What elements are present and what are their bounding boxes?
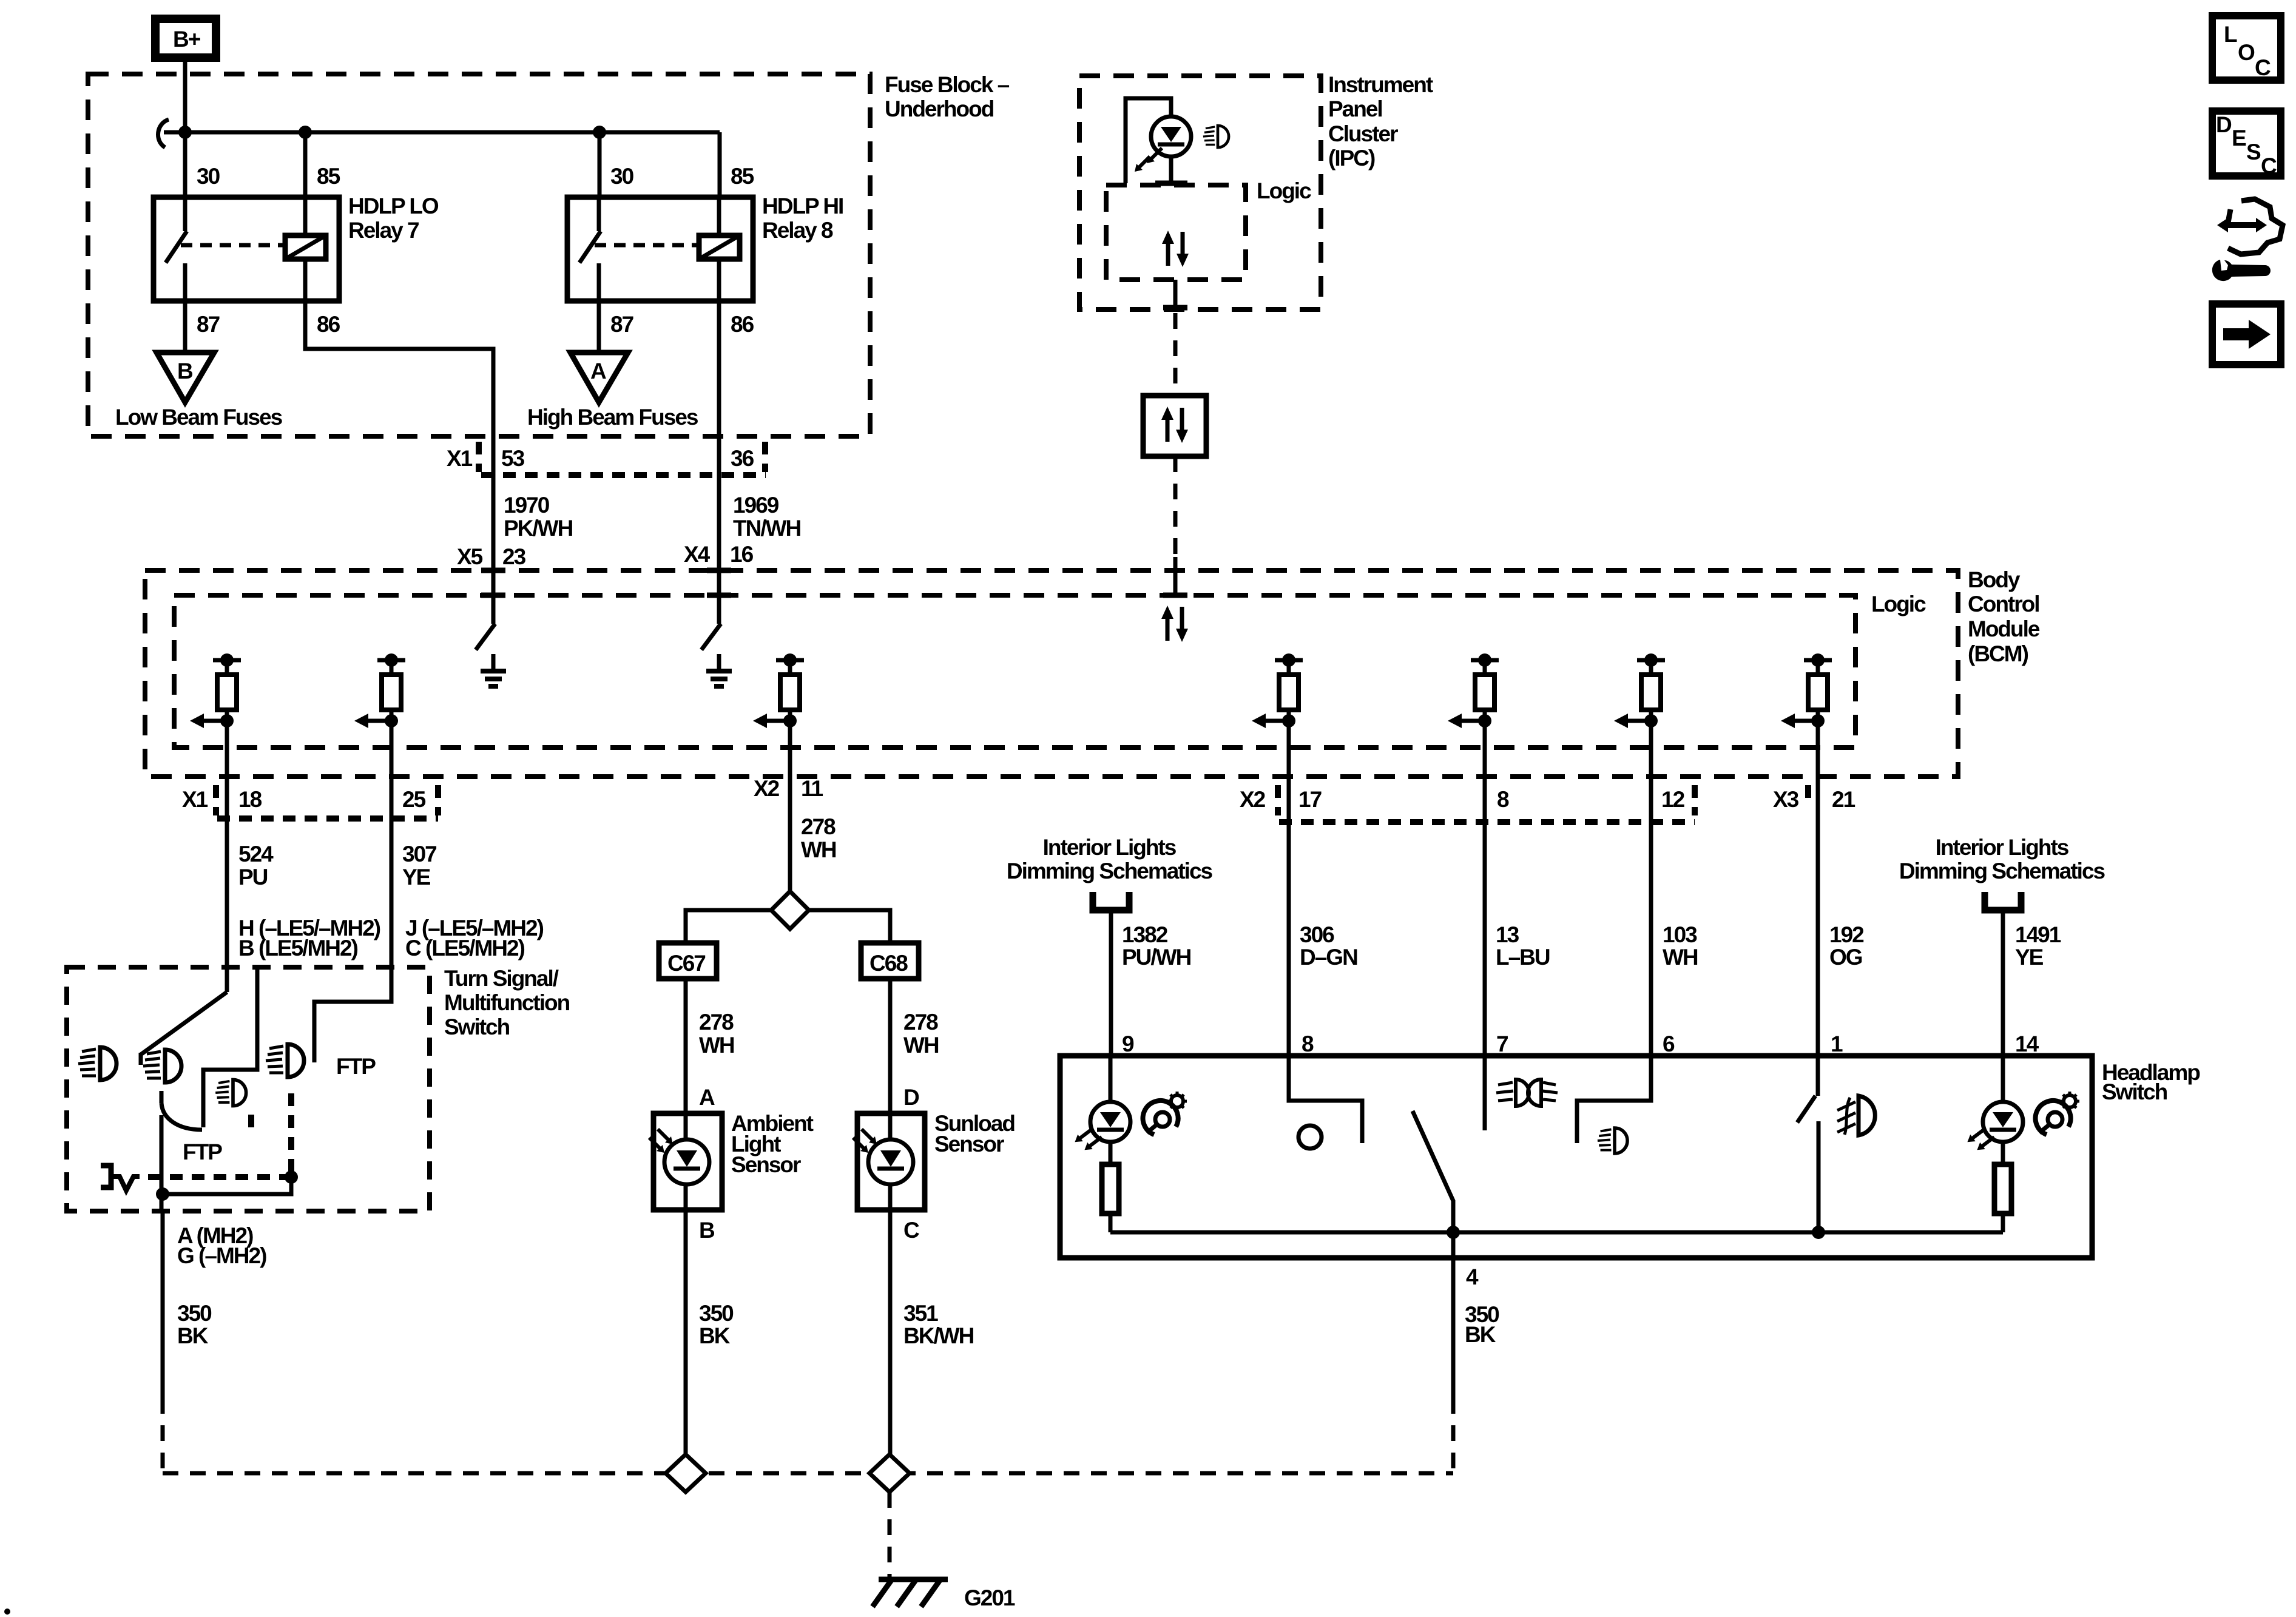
svg-text:C (LE5/MH2): C (LE5/MH2) — [405, 936, 525, 960]
svg-text:(BCM): (BCM) — [1968, 641, 2028, 666]
svg-text:30: 30 — [197, 164, 220, 189]
svg-text:WH: WH — [699, 1033, 734, 1058]
svg-text:D: D — [903, 1085, 919, 1110]
svg-text:86: 86 — [317, 312, 340, 337]
svg-text:524: 524 — [238, 842, 274, 866]
svg-text:Multifunction: Multifunction — [444, 990, 570, 1015]
svg-text:PU: PU — [238, 865, 268, 890]
svg-text:YE: YE — [402, 865, 431, 890]
svg-text:HDLP LO: HDLP LO — [348, 194, 439, 218]
svg-text:G (–MH2): G (–MH2) — [177, 1243, 266, 1268]
svg-text:6: 6 — [1663, 1031, 1675, 1056]
svg-text:A: A — [590, 359, 606, 383]
svg-text:C: C — [903, 1218, 919, 1243]
svg-text:Panel: Panel — [1328, 96, 1382, 121]
svg-text:D–GN: D–GN — [1300, 945, 1357, 970]
svg-text:278: 278 — [801, 814, 836, 839]
svg-text:7: 7 — [1496, 1031, 1508, 1056]
svg-text:BK: BK — [699, 1323, 731, 1348]
svg-text:16: 16 — [730, 542, 754, 567]
svg-text:307: 307 — [402, 842, 436, 866]
svg-text:S: S — [2246, 140, 2261, 164]
svg-text:C67: C67 — [667, 951, 705, 976]
svg-text:WH: WH — [1663, 945, 1698, 970]
svg-text:Interior Lights: Interior Lights — [1043, 835, 1177, 860]
svg-text:14: 14 — [2015, 1031, 2039, 1056]
svg-text:25: 25 — [402, 787, 426, 812]
svg-text:1382: 1382 — [1122, 922, 1168, 947]
svg-text:8: 8 — [1497, 787, 1509, 812]
svg-text:278: 278 — [903, 1010, 938, 1035]
svg-text:1969: 1969 — [733, 493, 779, 518]
svg-text:BK: BK — [1465, 1322, 1496, 1347]
svg-text:FTP: FTP — [336, 1054, 376, 1079]
svg-text:23: 23 — [502, 544, 526, 569]
svg-text:X4: X4 — [684, 542, 711, 567]
svg-text:C68: C68 — [869, 951, 908, 976]
svg-text:BK/WH: BK/WH — [903, 1323, 974, 1348]
svg-text:306: 306 — [1300, 922, 1334, 947]
svg-text:36: 36 — [731, 446, 754, 471]
svg-text:Logic: Logic — [1871, 592, 1926, 616]
svg-text:PU/WH: PU/WH — [1122, 945, 1191, 970]
svg-text:O: O — [2238, 40, 2255, 65]
svg-text:Cluster: Cluster — [1328, 121, 1398, 146]
svg-text:18: 18 — [238, 787, 262, 812]
svg-text:Switch: Switch — [444, 1014, 510, 1039]
svg-text:351: 351 — [903, 1301, 938, 1326]
svg-text:FTP: FTP — [183, 1139, 222, 1164]
svg-text:L: L — [2224, 22, 2237, 47]
svg-text:B: B — [699, 1218, 715, 1243]
svg-text:192: 192 — [1829, 922, 1864, 947]
svg-text:HDLP HI: HDLP HI — [762, 194, 843, 218]
svg-text:BK: BK — [177, 1323, 209, 1348]
svg-text:85: 85 — [731, 164, 754, 189]
svg-text:Body: Body — [1968, 567, 2021, 592]
svg-text:D: D — [2216, 112, 2232, 137]
svg-text:X5: X5 — [457, 544, 483, 569]
svg-text:86: 86 — [731, 312, 754, 337]
svg-text:Switch: Switch — [2102, 1079, 2167, 1104]
svg-text:Sensor: Sensor — [934, 1132, 1004, 1156]
svg-text:TN/WH: TN/WH — [733, 516, 801, 541]
svg-text:X2: X2 — [754, 776, 780, 801]
svg-text:Turn Signal/: Turn Signal/ — [444, 966, 559, 991]
svg-text:Fuse Block –: Fuse Block – — [885, 72, 1010, 97]
svg-text:21: 21 — [1832, 787, 1855, 812]
svg-text:8: 8 — [1302, 1031, 1314, 1056]
svg-text:Logic: Logic — [1257, 178, 1311, 203]
svg-text:PK/WH: PK/WH — [504, 516, 573, 541]
svg-text:350: 350 — [699, 1301, 734, 1326]
svg-text:9: 9 — [1122, 1031, 1134, 1056]
svg-text:Instrument: Instrument — [1328, 72, 1433, 97]
svg-text:30: 30 — [610, 164, 634, 189]
svg-text:B+: B+ — [173, 27, 201, 52]
svg-text:C: C — [2255, 55, 2271, 80]
svg-text:X2: X2 — [1240, 787, 1266, 812]
svg-text:X1: X1 — [182, 787, 208, 812]
svg-text:X3: X3 — [1773, 787, 1799, 812]
svg-text:Low Beam Fuses: Low Beam Fuses — [115, 405, 283, 430]
svg-text:OG: OG — [1829, 945, 1862, 970]
svg-text:(IPC): (IPC) — [1328, 146, 1375, 170]
svg-text:Control: Control — [1968, 592, 2039, 616]
svg-text:High Beam Fuses: High Beam Fuses — [527, 405, 698, 430]
svg-text:53: 53 — [501, 446, 525, 471]
svg-text:X1: X1 — [447, 446, 473, 471]
svg-text:Relay 7: Relay 7 — [348, 218, 419, 243]
svg-text:1970: 1970 — [504, 493, 550, 518]
svg-text:85: 85 — [317, 164, 340, 189]
svg-text:11: 11 — [801, 776, 823, 801]
svg-text:C: C — [2261, 154, 2277, 178]
svg-text:E: E — [2232, 126, 2246, 150]
svg-text:YE: YE — [2015, 945, 2044, 970]
svg-text:A: A — [699, 1085, 715, 1110]
svg-text:Dimming Schematics: Dimming Schematics — [1007, 859, 1213, 883]
svg-text:1: 1 — [1831, 1031, 1843, 1056]
svg-text:L–BU: L–BU — [1496, 945, 1550, 970]
svg-text:4: 4 — [1466, 1264, 1479, 1289]
svg-text:B: B — [177, 359, 193, 383]
svg-text:Relay 8: Relay 8 — [762, 218, 833, 243]
svg-text:Underhood: Underhood — [885, 96, 994, 121]
svg-text:Dimming Schematics: Dimming Schematics — [1899, 859, 2105, 883]
svg-text:Interior Lights: Interior Lights — [1936, 835, 2069, 860]
svg-text:WH: WH — [801, 837, 836, 862]
svg-text:1491: 1491 — [2015, 922, 2061, 947]
svg-text:B (LE5/MH2): B (LE5/MH2) — [238, 936, 358, 960]
svg-text:87: 87 — [197, 312, 220, 337]
svg-text:103: 103 — [1663, 922, 1697, 947]
svg-text:350: 350 — [177, 1301, 212, 1326]
svg-text:278: 278 — [699, 1010, 734, 1035]
svg-text:12: 12 — [1661, 787, 1685, 812]
svg-text:Module: Module — [1968, 616, 2040, 641]
svg-text:G201: G201 — [964, 1585, 1015, 1610]
svg-text:WH: WH — [903, 1033, 939, 1058]
svg-text:87: 87 — [610, 312, 633, 337]
svg-text:13: 13 — [1496, 922, 1519, 947]
svg-text:17: 17 — [1298, 787, 1322, 812]
svg-text:Sensor: Sensor — [731, 1152, 801, 1177]
